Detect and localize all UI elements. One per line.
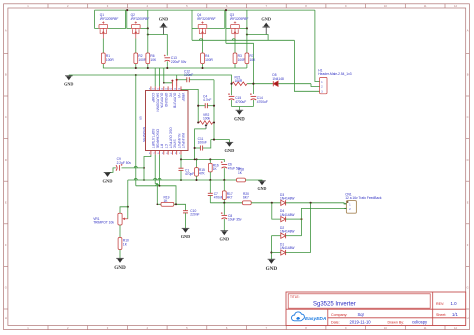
capacitor C8 [223,203,225,215]
svg-text:IRF3205PBF: IRF3205PBF [100,17,119,21]
resistor R6 [146,53,150,64]
ground GND3 [65,75,73,77]
diode D1 [281,250,286,255]
svg-text:CT: CT [164,144,168,148]
wire pin1 drop [180,155,182,160]
svg-text:2019-11-10: 2019-11-10 [350,319,372,324]
capacitor C10 [183,210,188,212]
svg-text:TRIMPOT 10k: TRIMPOT 10k [93,221,114,225]
wire VCC top rail [95,9,315,11]
capacitor C4 [204,102,206,104]
svg-text:4.7nF: 4.7nF [203,98,211,102]
svg-text:12: 12 [454,4,457,8]
svg-text:11: 11 [424,4,427,8]
svg-text:1N4148: 1N4148 [272,77,284,81]
svg-text:F: F [467,243,469,247]
capacitor C11 [199,146,201,151]
ground GND9 [221,230,229,232]
svg-text:NI./INPUT: NI./INPUT [177,134,181,149]
svg-text:Sg3525 Inverter: Sg3525 Inverter [313,302,356,308]
junction FB1 R16 [209,158,211,160]
U5 pin stubs [150,86,152,90]
diode D3 [281,200,286,205]
junction D3 right [310,202,312,204]
svg-text:9: 9 [345,4,347,8]
svg-text:E: E [5,201,7,205]
junction FB1 R15 [195,158,197,160]
svg-text:47K: 47K [199,171,206,175]
svg-text:6: 6 [226,4,228,8]
svg-text:IRF3205PBF: IRF3205PBF [230,17,249,21]
svg-text:Sqr: Sqr [358,312,365,317]
wire riser pin11 [159,68,161,86]
wire row B to VR1 [127,180,129,207]
junction FB2 R16 [209,179,211,181]
svg-text:Header-Male-2.54_1x3: Header-Male-2.54_1x3 [318,72,351,76]
transistor Q2 [135,22,137,24]
svg-text:IRF3205PBF: IRF3205PBF [197,17,216,21]
wire rail L1 [103,64,247,68]
wire R6 top [147,28,149,53]
junction FB1 riser [194,159,196,161]
svg-text:B: B [467,73,469,77]
svg-text:H: H [467,316,469,320]
svg-text:10K: 10K [250,58,257,62]
resistor R20 [243,201,252,205]
wire long vertical [135,75,137,186]
wire GND1 to C13 [148,35,168,56]
svg-text:100R: 100R [235,79,243,83]
connector CN1 [346,201,356,214]
wire pin8 jog [144,155,151,180]
svg-text:Sheet:: Sheet: [436,313,446,317]
wire D2 net [271,235,280,237]
svg-text:1/1: 1/1 [452,312,458,317]
wire C12 net [177,79,187,81]
svg-text:10uF 35v: 10uF 35v [228,218,242,222]
wire rail FB2 [128,179,237,181]
svg-text:D: D [467,158,469,162]
wire Q2 source [135,39,137,54]
junction D1 left [270,251,272,253]
svg-text:10: 10 [384,4,387,8]
wire gate A run [192,39,294,41]
junction L1 R4 [201,67,203,69]
svg-text:SG3525AN: SG3525AN [142,127,146,142]
svg-text:GROUND: GROUND [164,93,168,108]
junction D3 left [271,202,273,204]
wire Q2 gate box [127,10,131,28]
svg-text:GND: GND [64,81,73,86]
svg-text:GND: GND [159,17,169,22]
svg-text:+VI: +VI [177,93,181,98]
wire R7 top [246,28,248,53]
svg-text:TITLE:: TITLE: [290,295,300,299]
wire Q1 gate box [95,10,99,28]
wire CN1 pin2 riser [302,208,347,235]
wire rail L2a [69,75,232,84]
junction top rail Q4 [225,9,227,11]
svg-text:OUTPUTB: OUTPUTB [173,93,177,108]
svg-text:1: 1 [27,4,29,8]
resistor R10 [118,238,122,250]
ground GND4 [236,109,244,111]
capacitor C12 [186,77,188,82]
svg-text:6K7: 6K7 [243,195,249,199]
capacitor C14 [251,95,257,97]
svg-text:F: F [5,243,7,247]
diode D5 [273,81,278,86]
svg-text:H: H [5,316,7,320]
junction L1 R6 [147,67,149,69]
wire R18 to gnd [245,179,262,182]
ground GND7 [104,171,112,173]
IC U5 SG3525A body [146,91,189,151]
svg-text:3: 3 [107,4,109,8]
svg-text:Company:: Company: [331,313,347,317]
junction C11 left [194,147,196,149]
wire R19 to C10 [174,204,186,210]
svg-text:GND: GND [234,117,245,122]
svg-text:G: G [467,286,469,290]
svg-text:OSC OUTPUT: OSC OUTPUT [168,127,172,148]
svg-text:470pF: 470pF [185,172,194,176]
junction GND2 wire [246,33,248,35]
svg-text:GND: GND [225,148,235,153]
svg-text:C: C [5,115,7,119]
svg-text:Drawn By:: Drawn By: [388,320,405,324]
wire Q4 source [202,39,204,54]
capacitor C6 [222,164,228,166]
svg-text:GND: GND [266,266,278,272]
svg-text:Date:: Date: [331,320,340,324]
junction FB2 C1 [180,179,182,181]
junction GND1 wire [147,33,149,35]
wire Q4 gate box [224,10,226,28]
wire H1 pin1 riser [315,10,320,81]
resistor R19 [161,202,174,206]
svg-text:10: 10 [384,326,387,330]
svg-text:G: G [5,286,7,290]
wire riser pin10 [154,68,156,86]
wire C10 to gnd [185,213,187,228]
wire GND2 link [247,35,268,41]
capacitor C1 [180,159,182,168]
svg-text:GND: GND [181,234,191,239]
diode D4 [281,217,286,222]
svg-text:INV.INPUT: INV.INPUT [181,133,185,149]
ground GND10 [268,258,276,260]
svg-text:GND: GND [261,17,271,22]
wire D2 right [286,235,302,237]
junction L2a jog [163,82,165,84]
ground GND11 [116,257,124,259]
wire C11 net [195,147,201,149]
svg-text:220uF 50v: 220uF 50v [171,60,187,64]
junction top rail Q2 [126,9,128,11]
junction R19 right [175,203,177,205]
svg-text:SHUTDOWN: SHUTDOWN [155,93,159,112]
junction L1 C13 [166,67,168,69]
resistor R21 [232,82,247,86]
svg-text:12 a 16v Trafo FeedBack: 12 a 16v Trafo FeedBack [345,196,382,200]
svg-text:8: 8 [305,4,307,8]
svg-text:GND: GND [258,186,267,191]
svg-text:celiospy: celiospy [412,319,428,324]
resistor R18 [237,178,246,182]
ground GND8 [182,227,190,229]
wire D1 branch [270,236,272,260]
svg-text:VREF: VREF [181,93,185,102]
svg-text:IRF3205PBF: IRF3205PBF [131,17,150,21]
junction D4 right [301,218,303,220]
svg-text:EasyEDA: EasyEDA [305,316,327,322]
wire rail FB1 [181,159,224,162]
svg-text:7: 7 [266,4,268,8]
potentiometer VR1 [120,207,128,213]
wire caps bottom [232,106,254,108]
svg-text:4700uF: 4700uF [235,100,246,104]
svg-text:E: E [467,201,469,205]
wire VR1 to R10 [119,225,121,238]
svg-text:100R: 100R [106,58,114,62]
junction R19 left [157,204,159,206]
junction C12 left [176,79,178,81]
svg-text:4700uF: 4700uF [257,100,268,104]
svg-text:470nF: 470nF [214,195,223,199]
wire R10 to gnd [119,250,121,259]
junction FB2 R15 [195,179,197,181]
svg-text:VC: VC [168,93,172,98]
junction R21 left [230,83,232,85]
svg-text:1N4148W: 1N4148W [280,197,295,201]
svg-text:1K: 1K [213,167,218,171]
svg-text:4: 4 [146,4,148,8]
wire D5 net [247,83,273,85]
svg-text:C: C [467,115,469,119]
svg-text:GND: GND [114,265,126,271]
svg-text:2: 2 [67,4,69,8]
svg-text:A: A [467,29,469,33]
transistor Q4 [201,22,203,24]
capacitor C13 [165,57,171,59]
junction VR2 right [213,121,215,123]
wire D3 net [251,202,281,204]
transistor Q1 [102,22,104,24]
svg-text:100nF: 100nF [198,141,207,145]
wire D3 to CN1 [286,203,347,204]
svg-text:100k: 100k [203,117,210,121]
wire D4 right [286,218,302,220]
junction FB2 C6 [223,179,225,181]
svg-text:2.2uF 50v: 2.2uF 50v [117,161,132,165]
svg-text:B: B [5,73,7,77]
svg-text:1K: 1K [238,171,243,175]
wire VREF to C4 column [181,89,198,122]
wire D1 net [271,252,280,254]
svg-text:REV:: REV: [436,302,444,306]
wire gate B run [226,43,254,83]
svg-text:SYNC: SYNC [173,139,177,149]
svg-text:OUTPUTA: OUTPUTA [160,93,164,109]
svg-text:1N4148W: 1N4148W [280,213,295,217]
capacitor C15 [229,95,235,97]
resistor R1 [101,53,105,64]
junction FB3 R17 [223,202,225,204]
resistor R17 [223,180,225,191]
wire riser pin12 jog [164,68,173,83]
wire Q1 source [102,39,104,54]
junction D5 left [252,83,254,85]
svg-text:D: D [5,158,7,162]
wire row C [136,186,176,205]
capacitor C7 [209,180,211,193]
wire D4 branch [272,203,281,219]
svg-text:4K7: 4K7 [227,195,233,199]
svg-text:A: A [5,29,7,33]
resistor R4 [201,53,205,64]
wire VR2 wiper run [195,129,206,160]
svg-text:U5: U5 [139,116,143,120]
wire rail FB3 [210,202,242,204]
resistor R16 [209,159,211,163]
resistor R2 [134,53,138,64]
svg-text:220nF: 220nF [190,213,199,217]
wire Q3 gate box [225,10,227,43]
svg-text:GND: GND [103,178,114,183]
svg-text:GND: GND [220,236,230,241]
svg-text:100R: 100R [205,58,213,62]
junction C4 left [197,105,199,107]
potentiometer VR2 [199,121,212,125]
svg-text:5: 5 [186,4,188,8]
junction C4 right [213,105,215,107]
junction VR2 left [197,121,199,123]
ground GND5 [226,141,234,143]
junction FB1 a [180,158,182,160]
title block [286,292,466,326]
svg-text:12: 12 [454,326,457,330]
wire C4 leads [198,105,205,107]
resistor R3 [233,53,237,64]
junction C11 top [213,139,215,141]
transistor Q3 [234,22,236,24]
svg-text:SOFT-START: SOFT-START [151,129,155,149]
wire D1 right [286,252,311,254]
connector H1 [320,77,327,93]
resistor R15 [196,159,198,167]
resistor R7 [245,53,249,64]
svg-text:1N4148W: 1N4148W [280,229,295,233]
svg-text:1.0: 1.0 [451,301,458,306]
capacitor C9 [119,165,121,171]
svg-text:1N4148W: 1N4148W [280,246,295,250]
wire VREF drop [176,75,178,79]
svg-text:10K: 10K [150,58,157,62]
logo EasyEDA [291,312,304,321]
svg-text:1K: 1K [123,243,128,247]
junction VR1 node [127,206,129,208]
svg-text:COMP: COMP [151,93,155,103]
svg-text:DISCHARGE: DISCHARGE [155,129,159,148]
junction Q3 gate corner [246,27,248,29]
junction Q2 gate corner [147,27,149,29]
svg-text:100nF: 100nF [184,73,193,77]
wire C9 row [122,167,145,169]
diode D2 [281,233,286,238]
junction L1 R2 [135,67,137,69]
ground GND6 [258,180,266,182]
svg-text:RT: RT [160,144,164,148]
wire Q3 source [234,39,236,54]
wire C15 riser [231,84,233,96]
